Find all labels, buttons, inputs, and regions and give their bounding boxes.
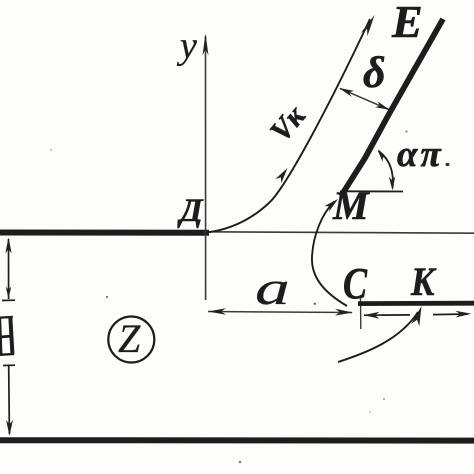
arrowhead on streamline (Vk direction) (275, 168, 287, 183)
arrowhead at bottom of angle arc (389, 176, 395, 190)
tick at bottom of upper H segment (2, 299, 15, 301)
speck (405, 130, 407, 132)
speck (314, 303, 316, 305)
speck (239, 461, 241, 463)
delta dimension double arrow between streamline and plate (340, 88, 389, 109)
wire: upper solid wall (thick, left of origin) (0, 230, 209, 236)
wire: upper wall thin continuation (x-axis to right edge) (205, 232, 474, 233)
plate K on lower wall (thick horizontal) (358, 301, 474, 306)
inclined flat plate (thick line from M up-right) (341, 19, 443, 196)
svg-text:Д: Д (177, 193, 204, 229)
streamline curve from D up to E (206, 19, 370, 233)
svg-text:C: C (343, 259, 368, 308)
angle arc alpha-pi (379, 151, 393, 188)
arrowhead at top of streamline (E) (361, 15, 375, 36)
wire: bottom wall (thick) (0, 437, 474, 443)
arrowhead of y-axis (203, 34, 209, 56)
svg-text:y: y (176, 25, 197, 67)
H dimension lower segment (arrow down to bottom wall) (8, 366, 11, 434)
speck (383, 398, 385, 400)
y-axis line (205, 36, 207, 300)
svg-text:απ: απ (397, 134, 444, 175)
label a (255, 261, 290, 314)
curved leader arrow from C up to M (312, 202, 347, 307)
dimension line a (from y-axis to C) (208, 312, 352, 313)
label C (Cyrillic Es) (343, 259, 368, 308)
svg-text:E: E (391, 0, 423, 47)
speck (50, 149, 52, 151)
tick at top of lower H segment (3, 364, 15, 366)
horizontal reference line at M (340, 190, 403, 192)
speck (106, 296, 108, 298)
extension tick below C (360, 298, 362, 329)
curved swoosh arrow pointing to K plate (338, 312, 418, 362)
H dimension upper segment (arrow up to wall) (8, 239, 10, 299)
circled figure label 2 (108, 317, 154, 363)
dimension arrows for K plate (364, 314, 410, 316)
svg-text:Z: Z (118, 316, 141, 361)
svg-text:K: K (410, 260, 437, 305)
label K (410, 260, 437, 305)
svg-text:a: a (255, 261, 290, 314)
arrowhead at top of angle arc (378, 150, 388, 162)
speck (446, 163, 450, 166)
svg-text:М: М (332, 183, 370, 228)
label H (cut off at left edge) (0, 317, 14, 355)
speck (369, 411, 371, 413)
svg-text:δ: δ (363, 48, 386, 97)
